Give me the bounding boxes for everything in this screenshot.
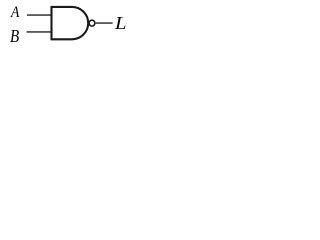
input label A [11,5,19,21]
wire B input [27,31,52,33]
inversion bubble [89,20,95,26]
output label L [115,15,126,33]
wire output [96,22,113,24]
NAND gate U1 body [52,7,89,39]
input label B [10,28,19,46]
wire A input [27,14,52,16]
